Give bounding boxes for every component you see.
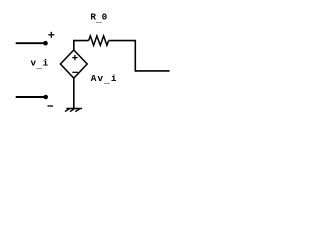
node: bottom input terminal dot bbox=[43, 95, 48, 100]
label: plus inside diamond bbox=[72, 55, 77, 60]
wire: bottom-left input lead bbox=[16, 96, 46, 98]
wire: from diamond bottom down to ground bbox=[73, 78, 75, 108]
label: plus polarity at top input bbox=[48, 32, 54, 38]
wire: top-left input lead bbox=[16, 42, 46, 44]
wire: top rail right of resistor, down and out to output bbox=[109, 41, 170, 71]
node: top input terminal dot bbox=[43, 41, 48, 46]
label: minus inside diamond bbox=[72, 71, 78, 73]
ground bbox=[65, 109, 82, 112]
resistor R_0 bbox=[89, 36, 109, 46]
dependent source E1 (diamond) bbox=[60, 50, 87, 78]
wire: riser from diamond top to top rail bbox=[74, 41, 89, 50]
label: minus polarity at bottom input bbox=[48, 105, 54, 107]
